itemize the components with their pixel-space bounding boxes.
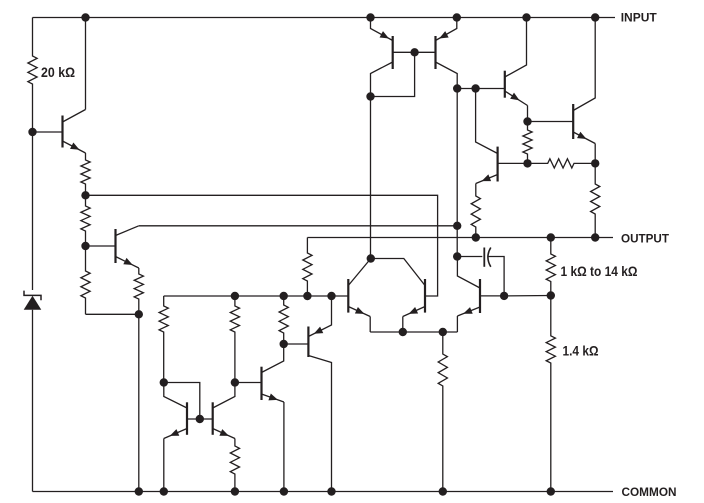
node base tie — [196, 415, 204, 423]
node Q10 emitter — [399, 328, 407, 336]
wire Q11 base to divider — [504, 295, 551, 297]
wire Q7 Q8 base — [393, 51, 436, 53]
wire bias bus — [164, 295, 349, 297]
wire Q4 Q5 base tie — [164, 383, 213, 420]
svg-text:OUTPUT: OUTPUT — [621, 231, 670, 245]
resistor R15 — [591, 163, 600, 237]
node R7 foot — [231, 378, 239, 386]
wire Q11 base — [480, 295, 504, 297]
wire base tie to Q7 collector — [371, 52, 415, 96]
wire Q12 base — [498, 162, 528, 164]
transistor Q4 — [164, 383, 187, 492]
resistor R16 1k-14k — [546, 238, 555, 296]
wire Q1 base — [33, 131, 63, 133]
node F — [453, 222, 461, 230]
node Q1 collector on input rail — [81, 13, 89, 21]
transistor Q3 — [262, 344, 284, 492]
node D — [135, 310, 143, 318]
svg-text:INPUT: INPUT — [621, 11, 658, 25]
node C — [81, 242, 89, 250]
svg-text:1.4 kΩ: 1.4 kΩ — [563, 343, 599, 358]
transistor Q11 — [457, 257, 480, 333]
transistor Q12 — [476, 89, 498, 184]
label INPUT — [621, 11, 658, 25]
wire output line — [307, 237, 613, 239]
svg-text:COMMON: COMMON — [622, 485, 677, 499]
label OUTPUT — [621, 231, 670, 245]
node Q11 base — [500, 292, 508, 300]
wire Q2 collector run — [139, 225, 457, 227]
node J — [523, 159, 531, 167]
transistor Q8 — [436, 18, 458, 89]
resistor R5 — [134, 268, 143, 314]
node G — [453, 252, 461, 260]
node R8 foot — [280, 340, 288, 348]
transistor Q6 — [308, 296, 331, 492]
capacitor C1 — [457, 248, 504, 296]
resistor R11 — [438, 332, 447, 492]
resistor R12 — [471, 184, 480, 238]
node Q13 collector rail — [522, 13, 530, 21]
svg-text:1 kΩ to 14 kΩ: 1 kΩ to 14 kΩ — [561, 264, 638, 279]
label R1 value — [41, 65, 75, 80]
node R12 output — [472, 233, 480, 241]
zener diode D1 — [24, 291, 42, 492]
node Q7 emitter rail — [366, 13, 374, 21]
resistor R10 — [230, 439, 239, 492]
wire emitters run — [370, 331, 457, 333]
resistor R4 — [81, 246, 90, 314]
node H — [439, 328, 447, 336]
node E — [453, 84, 461, 92]
label R17 value — [563, 343, 599, 358]
node R11 common — [439, 487, 447, 495]
wire Q6 base — [284, 343, 309, 345]
resistor R1 20 kOhm — [28, 18, 37, 133]
resistor R13 — [523, 122, 532, 164]
wire Q13 base — [457, 88, 505, 90]
transistor Q7 — [371, 18, 393, 97]
node Q14 collector rail — [591, 13, 599, 21]
resistor R6 — [159, 296, 168, 383]
node D common — [135, 487, 143, 495]
wire node D down to common — [138, 314, 140, 491]
svg-text:20 kΩ: 20 kΩ — [41, 65, 75, 80]
node A junction — [28, 128, 36, 136]
transistor Q10 — [371, 259, 425, 333]
transistor Q5 — [213, 383, 235, 439]
resistor R7 — [230, 296, 239, 383]
node center collectors — [367, 254, 375, 262]
node Q7 Q8 base — [410, 48, 418, 56]
node Q6 emitter bus — [327, 292, 335, 300]
wire mirror right output — [456, 89, 458, 257]
node R6 foot — [160, 378, 168, 386]
resistor R8 — [279, 296, 288, 344]
transistor Q9 — [348, 259, 371, 333]
wire long node B to Q10 base — [86, 195, 438, 296]
node I — [523, 117, 531, 125]
node Q4 emitter common — [160, 487, 168, 495]
wire input rail — [33, 17, 616, 19]
node R10 common — [231, 487, 239, 495]
wire common rail — [33, 491, 614, 493]
resistor R2 — [81, 153, 90, 195]
wire Q3 base — [235, 382, 262, 384]
node divider tap — [547, 291, 555, 299]
node R15 output — [591, 233, 599, 241]
resistor R17 1.4k — [546, 296, 555, 492]
wire R4 to R5 foot — [86, 313, 139, 315]
node R8 bus — [280, 292, 288, 300]
wire mirror left output — [370, 97, 372, 259]
transistor Q2 — [116, 226, 139, 268]
resistor R14 — [528, 159, 596, 168]
node B — [81, 191, 89, 199]
transistor Q14 — [573, 18, 595, 164]
transistor Q13 — [505, 18, 528, 106]
node Q3 emitter common — [280, 487, 288, 495]
node R16 output — [547, 233, 555, 241]
wire Q2 base — [86, 245, 116, 247]
wire Q14 base — [528, 121, 574, 123]
resistor R9 — [303, 238, 312, 297]
label COMMON — [622, 485, 677, 499]
node R7 bus — [231, 292, 239, 300]
node Q7 collector — [366, 92, 374, 100]
node Q12 collector — [471, 84, 479, 92]
node R17 common — [547, 487, 555, 495]
node K — [591, 159, 599, 167]
label R16 value — [561, 264, 638, 279]
transistor Q1 — [63, 18, 86, 154]
wire left rail mid — [32, 132, 34, 290]
resistor R3 — [81, 195, 90, 246]
node Q8 emitter rail — [453, 13, 461, 21]
wire Q13 emitter — [527, 106, 529, 122]
node R9 bus — [303, 292, 311, 300]
node Q6 collector common — [327, 487, 335, 495]
